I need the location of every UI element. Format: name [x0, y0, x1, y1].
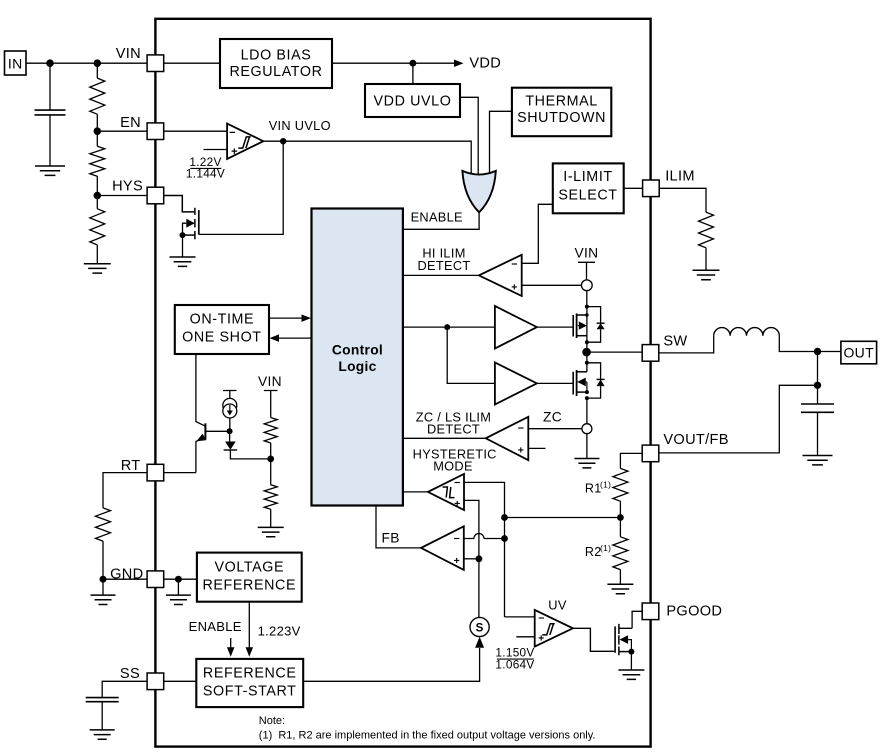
- current source I1: [223, 398, 237, 418]
- wire VDD UVLO to OR gate: [460, 97, 478, 176]
- block VDD UVLO: [365, 84, 460, 117]
- node driver branch: [444, 324, 450, 330]
- pin SW: [642, 333, 687, 361]
- node Q1 source: [180, 232, 186, 238]
- pin SS: [120, 666, 164, 690]
- label ZC LS ILIM DETECT: [416, 409, 491, 436]
- wire driver1 to M1 gate: [537, 326, 574, 328]
- svg-text:VDD UVLO: VDD UVLO: [374, 93, 452, 109]
- svg-text:DETECT: DETECT: [427, 421, 480, 436]
- wire HI ILIM output: [403, 274, 479, 276]
- sense node VIN circle: [581, 280, 592, 291]
- wire VOUT pin to R1: [620, 453, 642, 468]
- svg-text:SW: SW: [663, 333, 687, 349]
- svg-text:OUT: OUT: [843, 345, 874, 361]
- wire IN-VIN: [26, 62, 147, 64]
- node M2 source: [585, 390, 589, 400]
- label HI ILIM DETECT: [418, 246, 471, 273]
- wire ILIM resistor: [659, 188, 706, 212]
- wire VIN UVLO to Q1 drain: [199, 141, 283, 234]
- transistor M1: [573, 307, 587, 353]
- node EN junction: [94, 114, 102, 135]
- svg-text:VIN: VIN: [575, 246, 599, 261]
- wire FB minus with hop: [464, 534, 505, 539]
- wire SW: [587, 351, 642, 353]
- resistor R-EN-HYS: [90, 131, 105, 176]
- svg-text:−: −: [454, 477, 460, 489]
- node M1 source: [585, 340, 589, 344]
- ground internal: [166, 579, 191, 604]
- wire SS pin to soft-start: [164, 680, 196, 682]
- wire ZC minus to circle: [528, 428, 582, 430]
- wire one-shot to control: [269, 314, 311, 322]
- diode D1: [224, 431, 271, 459]
- label HYSTERETIC MODE: [413, 446, 497, 473]
- svg-text:−: −: [518, 423, 524, 435]
- svg-text:Control: Control: [332, 343, 383, 358]
- ground R-ILIM: [693, 248, 720, 280]
- node FB plus: [476, 555, 483, 562]
- wire FB tap to divider: [505, 517, 621, 519]
- svg-text:+: +: [518, 445, 524, 457]
- label 1.22V: [186, 155, 225, 181]
- label 1.223V: [258, 624, 301, 639]
- svg-text:DETECT: DETECT: [418, 258, 471, 273]
- node GND internal: [175, 576, 182, 583]
- wire current source to base node: [229, 418, 231, 431]
- label R2: [585, 543, 611, 559]
- svg-text:REGULATOR: REGULATOR: [229, 64, 322, 80]
- svg-text:FB: FB: [382, 531, 400, 546]
- summing node S: [470, 617, 489, 636]
- arrow VDD: [454, 59, 464, 66]
- label ENABLE: [411, 210, 463, 225]
- label VIN rail: [575, 246, 599, 261]
- svg-text:MODE: MODE: [433, 458, 473, 473]
- label VIN divider: [258, 374, 282, 389]
- block REFERENCE SOFT-START: [196, 659, 303, 707]
- wire LDO to VDD: [332, 62, 454, 64]
- pin HYS: [112, 179, 164, 204]
- node FB minus: [501, 535, 508, 542]
- wire 1.223V: [246, 602, 254, 657]
- wire control to one-shot: [270, 334, 312, 342]
- node input cap junction: [46, 59, 54, 67]
- svg-text:(1): (1): [600, 480, 611, 490]
- svg-text:GND: GND: [110, 567, 143, 583]
- buffer driver high: [495, 306, 537, 349]
- pin ILIM: [643, 168, 695, 196]
- terminal OUT: [841, 341, 877, 364]
- block LDO BIAS REGULATOR: [220, 39, 332, 88]
- ground Q1: [170, 235, 196, 266]
- resistor R2: [613, 537, 628, 570]
- terminal IN: [5, 51, 27, 75]
- ground COUT: [803, 456, 833, 465]
- wire HYS junction to pin: [97, 195, 147, 197]
- svg-text:(1): (1): [600, 543, 611, 553]
- wire GND pin left: [103, 578, 147, 580]
- svg-text:VDD: VDD: [469, 56, 501, 72]
- svg-text:R2: R2: [585, 545, 602, 559]
- svg-text:+: +: [231, 146, 238, 158]
- svg-text:I-LIMIT: I-LIMIT: [563, 169, 612, 185]
- svg-text:SELECT: SELECT: [558, 188, 617, 204]
- svg-text:−: −: [511, 258, 517, 270]
- wire VDD to VDD UVLO: [412, 63, 414, 84]
- svg-text:ILIM: ILIM: [665, 168, 695, 184]
- svg-text:LDO BIAS: LDO BIAS: [241, 48, 312, 64]
- ground divider ontime: [258, 509, 284, 537]
- wire VOUT to VOUT/FB pin: [659, 385, 818, 453]
- svg-text:R1: R1: [585, 482, 602, 496]
- svg-text:ONE SHOT: ONE SHOT: [182, 330, 261, 346]
- resistor R-ILIM: [699, 212, 714, 248]
- ground power stage: [574, 434, 599, 468]
- transistor Q1 body arrow: [183, 219, 195, 235]
- ref stub UV plus: [516, 636, 534, 638]
- label ZC: [543, 409, 562, 424]
- label R1: [585, 480, 611, 496]
- wire FB to UV minus: [505, 616, 535, 618]
- comparator FB: [421, 526, 464, 570]
- label VIN UVLO: [269, 118, 331, 133]
- svg-text:ENABLE: ENABLE: [411, 210, 463, 225]
- wire RT pin left: [103, 473, 147, 508]
- transistor Q1 drain-source rail: [198, 210, 200, 234]
- node output cap: [814, 382, 821, 389]
- wire HYS pin to Q1 gate: [164, 196, 194, 212]
- svg-text:+: +: [511, 282, 517, 294]
- svg-text:VOLTAGE: VOLTAGE: [214, 560, 284, 576]
- resistor R1: [613, 468, 628, 501]
- wire EN junction to pin: [97, 130, 147, 132]
- wire hysteretic minus: [464, 482, 505, 617]
- block ON-TIME ONE SHOT: [175, 305, 269, 354]
- node divider FB: [617, 501, 624, 537]
- svg-text:ENABLE: ENABLE: [189, 619, 242, 634]
- comparator HI ILIM: [479, 255, 522, 296]
- svg-text:ON-TIME: ON-TIME: [190, 312, 255, 328]
- pin RT: [121, 458, 164, 481]
- svg-text:(1) R1, R2 are implemented in: (1) R1, R2 are implemented in the fixed …: [259, 730, 596, 742]
- wire EN pin to comparator: [164, 130, 227, 132]
- svg-text:+: +: [454, 555, 460, 567]
- inductor L1: [714, 328, 780, 336]
- wire VIN UVLO output: [263, 141, 471, 176]
- transistor M2: [573, 352, 587, 396]
- note text: [259, 715, 596, 742]
- block Control Logic: [312, 209, 403, 506]
- svg-text:1.223V: 1.223V: [258, 624, 301, 639]
- pin VOUT/FB: [642, 432, 729, 462]
- svg-text:−: −: [538, 612, 544, 624]
- body diode M2: [587, 363, 605, 398]
- capacitor COUT: [801, 385, 834, 455]
- stub VIN rail: [578, 262, 595, 280]
- capacitor CSS: [86, 698, 119, 702]
- svg-text:ZC: ZC: [543, 409, 562, 424]
- block THERMAL SHUTDOWN: [512, 88, 611, 137]
- node VOUT: [814, 348, 821, 355]
- comparator UV: [535, 610, 573, 647]
- buffer driver low: [495, 363, 537, 405]
- node BJT base: [227, 428, 233, 434]
- ground CSS: [90, 702, 115, 740]
- svg-text:PGOOD: PGOOD: [666, 603, 722, 619]
- label UV: [548, 597, 567, 612]
- svg-text:−: −: [229, 127, 236, 139]
- wire FB plus: [464, 558, 479, 560]
- svg-text:1.064V: 1.064V: [495, 658, 534, 672]
- wire divider mid: [270, 443, 272, 485]
- wire OR output ENABLE: [403, 212, 479, 229]
- node divider mid: [267, 456, 274, 463]
- svg-text:S: S: [476, 623, 484, 635]
- svg-text:VIN UVLO: VIN UVLO: [269, 118, 331, 133]
- node VIN UVLO branch: [280, 138, 286, 144]
- capacitor CIN: [35, 63, 66, 166]
- block I-LIMIT SELECT: [553, 163, 624, 213]
- body diode M1: [587, 307, 605, 343]
- node VDD branch: [410, 60, 417, 67]
- pin PGOOD: [642, 603, 722, 620]
- svg-text:THERMAL: THERMAL: [525, 94, 598, 110]
- wire control to FB comp: [376, 506, 421, 548]
- wire driver2 to M2 gate: [537, 382, 574, 384]
- svg-text:REFERENCE: REFERENCE: [203, 578, 297, 594]
- node RT ground: [100, 541, 107, 583]
- svg-text:SHUTDOWN: SHUTDOWN: [517, 110, 606, 126]
- resistor R-ontime-bottom: [264, 485, 277, 510]
- wire VOUT down: [817, 352, 819, 386]
- ground divider: [84, 245, 111, 273]
- node HYS junction: [94, 176, 102, 199]
- wire HI ILIM plus to VIN sense: [522, 284, 582, 286]
- wire inductor to OUT: [779, 336, 841, 352]
- stub VIN divider: [264, 391, 278, 418]
- svg-text:IN: IN: [8, 56, 23, 72]
- sense node ZC circle: [582, 424, 592, 434]
- wire control to hysteretic: [403, 491, 428, 493]
- pin EN: [120, 115, 164, 140]
- resistor R-EN-top: [90, 63, 105, 114]
- pin VIN: [116, 46, 164, 72]
- wire THERMAL to OR gate: [490, 111, 512, 176]
- pin GND: [110, 567, 164, 588]
- svg-text:SOFT-START: SOFT-START: [203, 684, 297, 700]
- ground Q3: [618, 652, 644, 680]
- label 1.150V: [495, 646, 534, 672]
- IC boundary: [155, 19, 650, 747]
- svg-text:−: −: [454, 533, 460, 545]
- wire ZC output: [403, 437, 486, 439]
- comparator VIN UVLO: [227, 124, 263, 159]
- wire driver2 input: [447, 327, 495, 383]
- arrow into S: [475, 637, 484, 648]
- wire soft-start output: [303, 648, 479, 681]
- node divider top junction: [94, 59, 102, 67]
- svg-text:HYS: HYS: [112, 179, 143, 195]
- comparator HYSTERETIC: [428, 474, 464, 510]
- ref stub VIN UVLO plus: [204, 149, 228, 151]
- wire control to drivers: [403, 326, 495, 328]
- svg-text:+: +: [454, 498, 460, 510]
- wire I-LIMIT to comparator: [522, 204, 553, 263]
- wire emitter to RT pin: [164, 472, 196, 474]
- svg-text:Note:: Note:: [259, 715, 285, 727]
- wire GND pin to reference: [164, 578, 197, 580]
- ref stub ZC plus: [528, 447, 545, 449]
- svg-text:REFERENCE: REFERENCE: [203, 666, 297, 682]
- label FB: [382, 531, 400, 546]
- label VDD: [469, 56, 501, 72]
- wire hysteretic plus: [464, 500, 479, 617]
- gate OR enable: [462, 171, 495, 212]
- block VOLTAGE REFERENCE: [197, 553, 302, 602]
- svg-text:VOUT/FB: VOUT/FB: [663, 432, 728, 448]
- wire SW to inductor: [659, 336, 714, 353]
- svg-text:VIN: VIN: [116, 46, 141, 62]
- resistor R-ontime-top: [264, 418, 277, 444]
- node Q3 source: [628, 649, 634, 655]
- svg-text:UV: UV: [548, 597, 567, 612]
- node M1 drain: [585, 305, 589, 317]
- wire I-LIMIT to ILIM pin: [624, 187, 642, 189]
- wire VIN circle to M1: [586, 291, 588, 307]
- resistor R-RT: [96, 508, 111, 541]
- wire UV to PGOOD gate: [573, 628, 614, 651]
- transistor Q1 channel: [194, 208, 196, 240]
- resistor R-HYS-bottom: [90, 196, 105, 245]
- node M2 drain: [585, 361, 589, 365]
- ground RT: [91, 579, 116, 604]
- svg-text:1.144V: 1.144V: [186, 167, 225, 181]
- wire M2 to ZC circle: [586, 398, 588, 424]
- transistor Q2 BJT: [196, 354, 230, 473]
- label ENABLE ref: [189, 619, 242, 634]
- wire SS pin left cap: [102, 681, 147, 697]
- ground CIN: [35, 166, 65, 175]
- transistor Q1 source stub: [183, 234, 195, 236]
- arrow ENABLE ref: [227, 638, 235, 657]
- comparator ZC: [486, 417, 529, 460]
- node FB divider tap: [501, 514, 508, 521]
- ground R2: [607, 570, 633, 594]
- svg-text:VIN: VIN: [258, 374, 282, 389]
- svg-text:RT: RT: [121, 458, 141, 474]
- node SW: [582, 348, 591, 357]
- wire VIN pin to LDO: [164, 62, 220, 64]
- svg-text:EN: EN: [120, 115, 141, 131]
- transistor Q3 PGOOD: [615, 611, 642, 655]
- svg-text:SS: SS: [120, 666, 140, 682]
- svg-text:Logic: Logic: [338, 359, 376, 374]
- stub current source top: [223, 391, 237, 399]
